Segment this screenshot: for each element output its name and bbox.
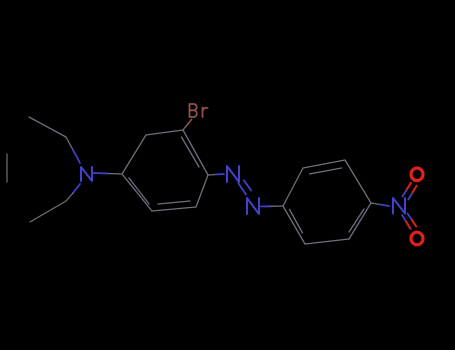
ethyl CH3a-CH2a: [29, 117, 66, 137]
Br label: r: [203, 108, 208, 118]
labels drawn as strokes: [81, 104, 423, 245]
ring to azo N bond: [208, 174, 216, 177]
right ring: [283, 160, 371, 244]
O upper label: [411, 168, 423, 181]
azo N upper label: [227, 166, 239, 182]
stray left tick: [6, 154, 8, 182]
N1 to ring bond: [93, 172, 108, 175]
ring to nitro N: [371, 203, 380, 205]
amine N label: [81, 167, 92, 181]
O lower label: [411, 232, 423, 245]
N=O lower double: [402, 215, 406, 222]
N=N azo double bond: [238, 180, 251, 194]
azo N lower label: [247, 198, 259, 214]
inner doubles: [310, 168, 342, 174]
ethyl CH3b: [30, 201, 66, 222]
N=O upper double: [403, 190, 407, 197]
Br bond: [183, 125, 187, 130]
ethyl CH2b-N bond: [73, 184, 80, 193]
nitro N label: [393, 198, 405, 214]
azo N to right ring: [261, 205, 271, 207]
left ring: [122, 130, 208, 211]
Br label: B: [190, 104, 197, 117]
ethyl CH2a-N bond: [66, 137, 73, 150]
inner doubles: [182, 137, 200, 167]
